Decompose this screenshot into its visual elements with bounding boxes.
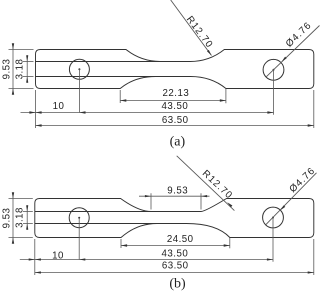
dimension 9.53 height (b): extension lines [9, 198, 33, 200]
leader diameter 4.76 (b): line through hole [266, 173, 317, 225]
dimension 24.50 gauge length (b): arrows [121, 244, 127, 246]
dimension 63.50 (a): arrows [36, 124, 42, 126]
dimension 22.13 gauge length (a): dimension line [120, 100, 226, 102]
dimension 9.53 height (a): extension lines [9, 49, 34, 51]
svg-text:10: 10 [52, 250, 64, 261]
svg-text:63.50: 63.50 [162, 115, 189, 126]
dimension 3.18 gauge height (a): extension lines [23, 61, 34, 63]
dimension 63.50 (b): arrows [35, 271, 41, 273]
leader diameter 4.76 (b): arrow [280, 205, 285, 210]
specimen (a) left hole [69, 59, 89, 79]
leader R12.70 (a): line [171, 0, 212, 56]
specimen (a) outline [36, 50, 314, 89]
dimension 63.50 (b): right extension line [313, 239, 315, 275]
specimen (b) gauge top edge line [35, 211, 176, 213]
specimen (b) right hole [263, 207, 284, 228]
dimension 43.50 (b): dimension line [20, 259, 273, 261]
dimension 43.50 (a): dimension line [21, 112, 274, 114]
dimension 9.53 height (a): arrows [12, 43, 14, 49]
specimen (b) outline [35, 199, 314, 238]
dimension 9.53 flat length (b): arrows [145, 195, 151, 197]
leader R12.70 (b): line [177, 156, 235, 211]
dimension 3.18 gauge height (b): arrows [26, 205, 28, 211]
svg-text:63.50: 63.50 [162, 261, 189, 272]
svg-text:43.50: 43.50 [162, 248, 189, 259]
svg-text:24.50: 24.50 [167, 234, 194, 245]
leader R12.70 (b): arrow [227, 202, 232, 207]
specimen (b) left hole [69, 208, 89, 228]
specimen (b) gauge bottom edge line [35, 223, 172, 225]
svg-text:3.18: 3.18 [15, 59, 26, 80]
dimension 9.53 height (b): dimension line [12, 192, 14, 244]
svg-text:(a): (a) [170, 134, 186, 149]
dimension 9.53 height (b): arrows [12, 192, 14, 198]
leader R12.70 (a): arrow [207, 50, 212, 56]
dimension 3.18 gauge height (a): dimension line [26, 55, 28, 83]
dimension 43.50 (a): hole centre extension lines [78, 69, 80, 112]
dimension 3.18 gauge height (a): arrows [26, 55, 28, 61]
dimension 3.18 gauge height (b): extension lines [23, 211, 33, 213]
specimen (a) gauge top edge line [36, 61, 176, 63]
svg-text:3.18: 3.18 [15, 207, 26, 228]
dimension 43.50 (a): left extension line [35, 90, 37, 128]
dimension 10 hole position (a): outside arrows [29, 111, 35, 113]
svg-text:43.50: 43.50 [162, 101, 189, 112]
dimension 63.50 (a): right extension line [313, 90, 315, 128]
dimension 43.50 (a): arrows [36, 111, 42, 113]
svg-text:9.53: 9.53 [167, 185, 188, 196]
dimension 9.53 height (a): dimension line [12, 43, 14, 95]
specimen (a) right hole [263, 59, 284, 80]
dimension 10 hole position (b): outside arrows [29, 258, 35, 260]
dimension 63.50 (b): dimension line [35, 272, 314, 274]
leader diameter 4.76 (a): arrow [282, 57, 287, 62]
dimension 22.13 gauge length (a): arrows [120, 99, 126, 101]
dimension 63.50 (a): dimension line [36, 125, 314, 127]
svg-text:9.53: 9.53 [1, 59, 12, 80]
dimension 9.53 flat length (b): extension lines [150, 193, 152, 209]
svg-text:9.53: 9.53 [1, 208, 12, 229]
leader diameter 4.76 (a): line through hole [266, 26, 319, 77]
dimension 43.50 (b): arrows [35, 258, 41, 260]
specimen (a) gauge bottom edge line [36, 76, 174, 78]
dimension 24.50 gauge length (b): extension lines [120, 239, 122, 248]
dimension 24.50 gauge length (b): dimension line [121, 245, 230, 247]
dimension 43.50 (b): left extension line [34, 239, 36, 275]
svg-text:(b): (b) [169, 277, 186, 292]
dimension 3.18 gauge height (b): dimension line [26, 205, 28, 230]
svg-text:22.13: 22.13 [163, 88, 190, 99]
dimension 22.13 gauge length (a): extension lines [119, 90, 121, 103]
dimension 43.50 (b): hole centre extension lines [78, 218, 80, 260]
dimension 9.53 flat length (b): dimension line [139, 195, 210, 197]
svg-text:10: 10 [53, 101, 65, 112]
